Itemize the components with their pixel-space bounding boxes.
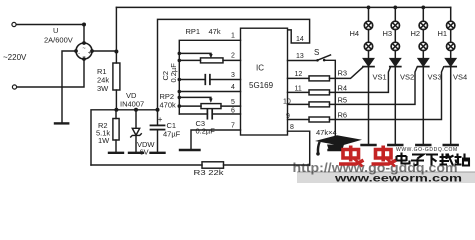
svg-text:4: 4 (231, 84, 235, 91)
svg-text:8: 8 (290, 124, 294, 131)
svg-text:U: U (53, 26, 58, 35)
svg-text:R6: R6 (338, 111, 348, 120)
svg-text:R5: R5 (338, 96, 348, 105)
svg-text:R3: R3 (338, 69, 348, 78)
svg-text:H2: H2 (411, 29, 421, 38)
svg-text:3: 3 (231, 72, 235, 79)
svg-text:47k: 47k (209, 27, 221, 36)
svg-text:WWW.GO-GDDQ.COM: WWW.GO-GDDQ.COM (396, 147, 458, 153)
svg-text:H4: H4 (350, 29, 360, 38)
svg-text:RP1: RP1 (186, 27, 201, 36)
svg-text:VS3: VS3 (428, 73, 442, 82)
svg-text:VS1: VS1 (373, 73, 387, 82)
svg-text:0.2µF: 0.2µF (196, 127, 216, 136)
svg-text:47k×4: 47k×4 (316, 128, 337, 137)
svg-text:3W: 3W (97, 84, 109, 93)
svg-text:+: + (88, 50, 91, 56)
svg-text:13: 13 (296, 53, 304, 60)
svg-text:IN4007: IN4007 (120, 100, 144, 109)
svg-text:470k: 470k (160, 101, 177, 110)
svg-text:47µF: 47µF (163, 130, 181, 139)
svg-text:14: 14 (296, 36, 304, 43)
svg-text:~: ~ (82, 55, 85, 61)
svg-text:9: 9 (286, 113, 290, 120)
svg-text:R3 22k: R3 22k (194, 168, 224, 177)
svg-text:0.2µF: 0.2µF (169, 63, 178, 83)
svg-text:5G169: 5G169 (249, 81, 274, 90)
svg-text:2: 2 (231, 53, 235, 60)
svg-text:6V: 6V (140, 148, 149, 157)
svg-text:-: - (78, 50, 80, 56)
svg-text:VS2: VS2 (400, 73, 414, 82)
svg-text:10: 10 (283, 99, 291, 106)
svg-text:6: 6 (231, 107, 235, 114)
svg-text:S: S (314, 48, 319, 57)
svg-text:5: 5 (231, 99, 235, 106)
svg-text:2A/600V: 2A/600V (44, 36, 73, 45)
svg-text:www.eeworm.com: www.eeworm.com (334, 174, 463, 184)
svg-text:~220V: ~220V (3, 53, 27, 62)
svg-text:VS4: VS4 (453, 73, 467, 82)
svg-text:11: 11 (295, 86, 302, 93)
svg-text:R4: R4 (338, 84, 348, 93)
svg-text:7: 7 (231, 123, 235, 130)
svg-text:1: 1 (231, 33, 235, 40)
svg-text:IC: IC (256, 64, 264, 73)
svg-text:1W: 1W (98, 136, 110, 145)
svg-text:H3: H3 (383, 29, 393, 38)
svg-text:12: 12 (295, 71, 303, 78)
svg-text:H1: H1 (438, 29, 448, 38)
svg-text:~: ~ (82, 46, 85, 52)
svg-text:+: + (158, 115, 163, 124)
